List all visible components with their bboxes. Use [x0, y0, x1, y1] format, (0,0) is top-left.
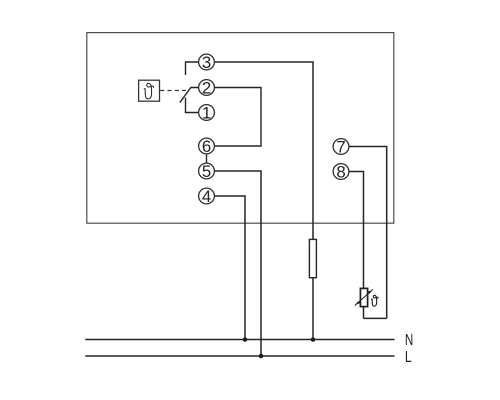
- terminal 3: [199, 53, 215, 72]
- svg-text:3: 3: [202, 53, 211, 72]
- svg-text:8: 8: [336, 163, 345, 182]
- dashed actuator line: [160, 90, 186, 92]
- terminal 8: [333, 163, 349, 182]
- resistor (heating element): [309, 239, 316, 277]
- svg-text:1: 1: [202, 104, 211, 123]
- terminal 5: [199, 162, 215, 181]
- thermistor arrow diagonal: [355, 289, 373, 305]
- L line: [85, 355, 394, 357]
- svg-text:L: L: [405, 349, 412, 366]
- link between terminals 6 and 5: [206, 154, 208, 163]
- wire from terminal 4 to N line: [214, 196, 245, 340]
- thermostat sensor box: [139, 80, 160, 101]
- svg-text:N: N: [405, 332, 413, 349]
- svg-text:4: 4: [202, 187, 211, 206]
- theta symbol in box: [144, 83, 153, 99]
- N line: [85, 339, 394, 341]
- wire linking terminal 2 to terminal 6: [214, 88, 261, 147]
- wire from terminal 3 to upper fixed contact: [186, 62, 199, 75]
- svg-text:5: 5: [202, 162, 211, 181]
- thermistor arrowhead lower: [356, 301, 360, 305]
- thermistor sensor body: [360, 288, 367, 306]
- wire from terminal 1 to lower fixed contact: [186, 98, 199, 113]
- thermistor theta label: [371, 295, 378, 306]
- wire from terminal 7 down right side: [349, 147, 386, 319]
- wire from terminal 3 down to N line: [214, 62, 313, 340]
- terminal 4: [199, 187, 215, 206]
- device outline: [87, 33, 394, 224]
- terminal 6: [199, 137, 215, 156]
- wire from terminal 8 down through sensor: [349, 172, 363, 319]
- wire bottom of sensor loop: [364, 317, 387, 319]
- junction dot wire4/N: [243, 337, 248, 342]
- terminal 7: [333, 138, 349, 157]
- junction dot wire3/N: [311, 337, 316, 342]
- svg-text:6: 6: [202, 137, 211, 156]
- wire from terminal 5 to L line: [214, 171, 261, 356]
- svg-text:2: 2: [202, 79, 211, 98]
- junction dot wire5/L: [259, 354, 264, 359]
- terminal 1: [199, 104, 215, 123]
- svg-text:7: 7: [336, 138, 345, 157]
- thermistor arrowhead upper: [368, 290, 372, 294]
- terminal 2: [199, 79, 215, 98]
- switch lever from terminal 2: [180, 88, 199, 103]
